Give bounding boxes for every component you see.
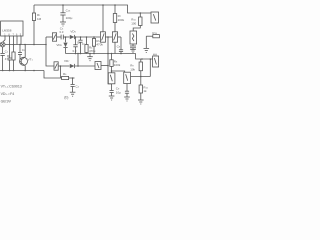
wire to boxA bottom <box>108 66 112 84</box>
capacitor C8 <box>120 37 122 50</box>
resistor R4 <box>86 37 88 45</box>
svg-text:1k: 1k <box>143 89 147 93</box>
wire pin stubs <box>9 36 11 45</box>
svg-text:10k: 10k <box>130 67 135 71</box>
capacitor C5 <box>60 35 62 40</box>
wire bus below IC <box>5 44 46 46</box>
wire bus right y59 <box>136 54 153 60</box>
svg-text:100: 100 <box>131 21 136 25</box>
wire rail drop to lower row <box>44 71 62 79</box>
svg-text:10μ: 10μ <box>116 90 121 94</box>
ground mid <box>89 54 91 57</box>
comparator box U2 <box>95 62 101 70</box>
node top rail junction box1 riser <box>102 4 104 6</box>
svg-text:470k: 470k <box>96 43 103 47</box>
capacitor C13 <box>62 5 64 13</box>
svg-text:(b): (b) <box>64 96 68 100</box>
capacitor C6 <box>75 37 77 45</box>
wire riser x108 <box>107 37 109 66</box>
transistor boxB <box>124 72 131 83</box>
ground R11 <box>138 99 144 101</box>
wire mid bus y53.5 <box>66 53 136 55</box>
capacitor C1 under mic <box>2 47 4 53</box>
svg-text:VT1,2:CS9013: VT1,2:CS9013 <box>1 85 22 89</box>
op-amp U1 IC box <box>1 21 23 36</box>
capacitor C3 chain <box>9 45 11 58</box>
wire box2 bottom <box>114 42 116 53</box>
svg-text:470k: 470k <box>89 49 96 53</box>
trimmer RP2 <box>54 62 58 70</box>
wire top rail <box>34 5 151 13</box>
node top rail junction R200k <box>114 4 116 6</box>
buzzer box HA top <box>151 12 159 23</box>
ground boxA <box>109 95 115 97</box>
capacitor C7 <box>80 37 82 40</box>
svg-text:1M: 1M <box>37 17 42 21</box>
ground R15 <box>144 47 150 49</box>
ground C4 <box>70 91 76 93</box>
svg-text:100μ: 100μ <box>66 16 73 20</box>
ground relay <box>130 49 136 51</box>
potentiometer box1 RP3 <box>102 5 104 32</box>
resistor R1 <box>33 5 35 13</box>
resistor R5 <box>93 37 95 39</box>
wire bottom rail left <box>0 70 44 72</box>
potentiometer RP1 <box>46 36 52 38</box>
svg-text:100k: 100k <box>114 63 121 67</box>
wire base link to boxB <box>112 71 125 72</box>
capacitor C4 <box>72 78 74 84</box>
wire drop to R6 <box>60 66 62 78</box>
resistor R9 10k <box>140 59 142 62</box>
capacitor C9 <box>111 84 113 90</box>
ground boxB <box>124 96 130 98</box>
wire riser x46 <box>46 37 54 66</box>
ground below C13 <box>60 21 66 23</box>
resistor R6 horizontal <box>62 76 69 79</box>
relay K <box>139 13 141 17</box>
microphone BM <box>0 42 5 47</box>
capacitor C11 under relay <box>132 44 134 46</box>
capacitor C10 <box>126 84 128 92</box>
svg-text:GB:9V: GB:9V <box>1 99 12 103</box>
transistor boxA <box>108 73 115 84</box>
capacitor C2 <box>19 45 21 53</box>
resistor R8 100k <box>111 54 113 60</box>
resistor R7 200k <box>114 5 116 14</box>
resistor R11 1k <box>140 77 142 86</box>
box2 comparator <box>112 32 117 42</box>
wire riser x78 <box>77 54 79 67</box>
resistor R2 <box>13 45 15 53</box>
svg-text:200k: 200k <box>118 18 125 22</box>
svg-text:LM358: LM358 <box>2 29 12 33</box>
wire y76.5 <box>131 76 151 78</box>
node top rail junction C13 <box>62 4 64 6</box>
svg-text:3.3: 3.3 <box>72 49 77 53</box>
svg-text:3.3: 3.3 <box>59 30 64 34</box>
transistor VT1 <box>20 57 28 65</box>
